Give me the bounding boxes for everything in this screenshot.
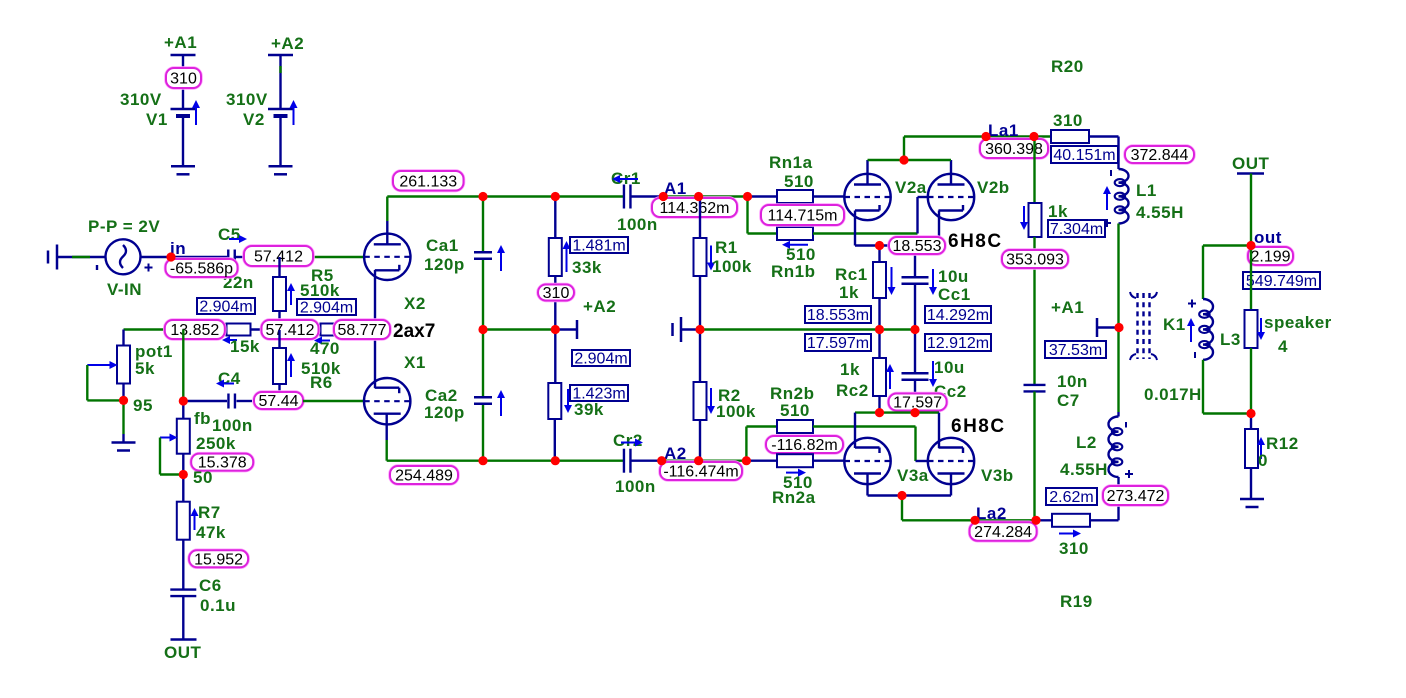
svg-text:1.481m: 1.481m [572, 238, 625, 255]
svg-text:X1: X1 [404, 353, 426, 372]
svg-text:L1: L1 [1136, 181, 1157, 200]
svg-text:353.093: 353.093 [1006, 252, 1064, 269]
svg-text:V3a: V3a [897, 466, 929, 485]
svg-text:18.553m: 18.553m [807, 307, 869, 324]
svg-text:K1: K1 [1163, 315, 1186, 334]
svg-text:C5: C5 [218, 225, 241, 244]
svg-text:58.777: 58.777 [338, 322, 387, 339]
svg-text:1k: 1k [839, 283, 859, 302]
svg-text:7.304m: 7.304m [1050, 221, 1103, 238]
svg-text:14.292m: 14.292m [927, 307, 989, 324]
svg-text:100k: 100k [716, 402, 756, 421]
svg-text:V2a: V2a [895, 178, 927, 197]
svg-text:Rc2: Rc2 [836, 381, 869, 400]
svg-text:2.904m: 2.904m [199, 299, 252, 316]
svg-text:1k: 1k [840, 360, 860, 379]
svg-text:254.489: 254.489 [395, 468, 453, 485]
svg-text:+A2: +A2 [583, 297, 616, 316]
svg-text:4: 4 [1278, 337, 1288, 356]
svg-text:0.017H: 0.017H [1144, 385, 1202, 404]
svg-text:-65.586p: -65.586p [170, 261, 233, 278]
svg-text:261.133: 261.133 [399, 173, 457, 190]
svg-text:C7: C7 [1057, 391, 1080, 410]
svg-text:2ax7: 2ax7 [393, 321, 435, 342]
svg-text:1k: 1k [1048, 202, 1068, 221]
svg-text:33k: 33k [572, 258, 602, 277]
svg-text:-116.474m: -116.474m [663, 464, 738, 481]
svg-text:310: 310 [543, 285, 570, 302]
svg-text:250k: 250k [196, 434, 236, 453]
svg-text:18.553: 18.553 [893, 238, 942, 255]
svg-text:50: 50 [193, 468, 213, 487]
svg-text:V2: V2 [243, 110, 265, 129]
svg-text:R19: R19 [1060, 592, 1093, 611]
svg-text:5k: 5k [135, 359, 155, 378]
svg-text:R12: R12 [1266, 434, 1299, 453]
svg-text:X2: X2 [404, 294, 426, 313]
svg-text:fb: fb [194, 409, 211, 428]
svg-text:+A2: +A2 [271, 34, 304, 53]
svg-text:2.904m: 2.904m [574, 351, 627, 368]
svg-text:Rn2a: Rn2a [772, 488, 816, 507]
svg-text:4.55H: 4.55H [1060, 460, 1108, 479]
svg-text:510k: 510k [300, 281, 340, 300]
svg-text:114.362m: 114.362m [660, 200, 730, 217]
svg-text:310V: 310V [226, 90, 268, 109]
svg-text:510: 510 [780, 401, 810, 420]
svg-text:470: 470 [310, 339, 340, 358]
svg-text:6H8C: 6H8C [951, 416, 1006, 437]
svg-text:15.952: 15.952 [194, 551, 243, 568]
svg-text:372.844: 372.844 [1131, 147, 1189, 164]
svg-text:15k: 15k [230, 337, 260, 356]
svg-text:Ca1: Ca1 [426, 236, 459, 255]
svg-text:100n: 100n [617, 215, 658, 234]
svg-text:47k: 47k [196, 523, 226, 542]
svg-text:V-IN: V-IN [107, 280, 142, 299]
svg-text:100n: 100n [212, 416, 253, 435]
svg-text:57.412: 57.412 [266, 322, 315, 339]
svg-text:12.912m: 12.912m [927, 335, 989, 352]
svg-text:6H8C: 6H8C [948, 231, 1003, 252]
svg-text:310: 310 [1053, 111, 1083, 130]
svg-text:R7: R7 [198, 503, 221, 522]
svg-text:100k: 100k [712, 257, 752, 276]
svg-text:Rn1a: Rn1a [769, 153, 813, 172]
svg-text:4.55H: 4.55H [1136, 203, 1184, 222]
svg-text:100n: 100n [615, 477, 656, 496]
svg-text:37.53m: 37.53m [1049, 342, 1102, 359]
svg-text:out: out [1254, 228, 1282, 247]
svg-text:-116.82m: -116.82m [771, 437, 837, 454]
svg-text:17.597m: 17.597m [807, 335, 869, 352]
svg-text:speaker: speaker [1264, 313, 1332, 332]
svg-text:13.852: 13.852 [170, 322, 219, 339]
svg-text:La2: La2 [976, 504, 1007, 523]
svg-text:10u: 10u [934, 358, 965, 377]
svg-text:120p: 120p [424, 255, 465, 274]
svg-text:40.151m: 40.151m [1053, 147, 1115, 164]
svg-text:310: 310 [1059, 539, 1089, 558]
svg-text:310V: 310V [120, 90, 162, 109]
svg-text:120p: 120p [424, 403, 465, 422]
svg-text:2.62m: 2.62m [1049, 489, 1093, 506]
svg-text:L3: L3 [1220, 330, 1241, 349]
svg-text:V3b: V3b [981, 466, 1014, 485]
svg-text:10n: 10n [1057, 372, 1088, 391]
svg-text:OUT: OUT [164, 643, 202, 662]
svg-text:57.44: 57.44 [258, 393, 298, 410]
svg-text:+A1: +A1 [164, 33, 197, 52]
svg-text:114.715m: 114.715m [768, 208, 838, 225]
svg-text:273.472: 273.472 [1107, 488, 1165, 505]
svg-text:Cc1: Cc1 [938, 285, 971, 304]
svg-text:C6: C6 [199, 576, 222, 595]
svg-text:L2: L2 [1076, 433, 1097, 452]
svg-text:10u: 10u [938, 267, 969, 286]
svg-text:2.904m: 2.904m [300, 300, 353, 317]
svg-text:Rn1b: Rn1b [771, 262, 816, 281]
svg-text:274.284: 274.284 [974, 524, 1032, 541]
svg-text:2.199: 2.199 [1250, 249, 1290, 266]
svg-text:V1: V1 [146, 110, 168, 129]
svg-text:P-P = 2V: P-P = 2V [88, 217, 160, 236]
svg-text:La1: La1 [988, 121, 1019, 140]
svg-text:0.1u: 0.1u [200, 596, 236, 615]
svg-text:+A1: +A1 [1051, 298, 1084, 317]
svg-text:Rc1: Rc1 [835, 265, 868, 284]
svg-text:95: 95 [133, 396, 153, 415]
svg-text:OUT: OUT [1232, 154, 1270, 173]
svg-text:510: 510 [784, 172, 814, 191]
svg-text:V2b: V2b [977, 178, 1010, 197]
svg-text:310: 310 [170, 71, 197, 88]
svg-text:549.749m: 549.749m [1246, 273, 1317, 290]
svg-text:R1: R1 [715, 238, 738, 257]
svg-text:39k: 39k [574, 400, 604, 419]
svg-text:R20: R20 [1051, 57, 1084, 76]
svg-text:R6: R6 [310, 373, 333, 392]
svg-text:0: 0 [1258, 451, 1268, 470]
